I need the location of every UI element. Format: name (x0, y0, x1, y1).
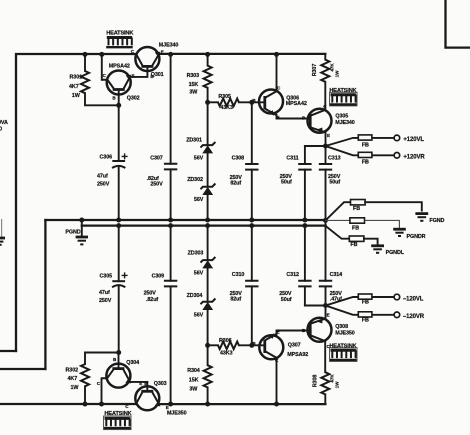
node junction dots on mid rails (79, 218, 328, 229)
wire left input stub exiting left edge (0, 350, 16, 352)
svg-text:MPSA92: MPSA92 (287, 352, 308, 358)
wire bottom rail (raw - input) (0, 403, 325, 405)
svg-text:15K: 15K (189, 82, 199, 88)
junction dot zener reference node top (205, 100, 210, 105)
svg-text:E: E (327, 133, 330, 138)
capacitor C308 (230, 102, 259, 220)
svg-text:47uf: 47uf (97, 174, 108, 180)
svg-text:E: E (277, 115, 280, 120)
svg-text:250V: 250V (97, 182, 110, 188)
svg-text:FB: FB (362, 317, 369, 323)
heatsink for Q303 (104, 411, 133, 429)
resistor R302 (66, 353, 119, 405)
svg-text:FB: FB (362, 159, 369, 165)
junction dot C308 tap (249, 100, 254, 105)
junction dot node R301/Q302 base (116, 103, 121, 108)
svg-text:ZD301: ZD301 (186, 138, 202, 144)
svg-text:E: E (166, 405, 169, 410)
ferrite bead FB output -120VR (358, 312, 394, 324)
node A junction dots on top rail (83, 52, 280, 57)
svg-text:1W: 1W (334, 70, 339, 77)
svg-text:.47uf: .47uf (330, 297, 342, 303)
svg-text:47uf: 47uf (99, 290, 110, 296)
transistor Q301 MJE340 (130, 42, 178, 79)
svg-text:E: E (327, 313, 330, 318)
svg-text:ZD302: ZD302 (187, 177, 203, 183)
svg-text:15K: 15K (189, 378, 199, 384)
terminal +120VR (394, 153, 425, 161)
capacitor C307 (147, 54, 178, 220)
wire mid ground rail 2 (82, 224, 326, 226)
ground PGNDR (393, 229, 425, 240)
svg-text:56V: 56V (194, 155, 204, 161)
capacitor C309 (144, 226, 178, 404)
transistor Q303 MJE350 (125, 381, 186, 416)
svg-text:+120VR: +120VR (403, 154, 425, 160)
zener ZD304 (187, 293, 216, 345)
svg-text:47K: 47K (329, 374, 334, 383)
svg-text:43K3: 43K3 (220, 351, 233, 357)
transistor Q306 MPSA42 (252, 54, 310, 119)
node output - fork (305, 297, 358, 315)
svg-text:4K7: 4K7 (69, 84, 79, 90)
ground PGNDL (371, 246, 405, 256)
capacitor C313 (319, 146, 341, 220)
transistor Q304 MPSA92 (97, 353, 148, 405)
svg-text:C310: C310 (232, 272, 245, 278)
svg-text:Q304: Q304 (126, 360, 139, 366)
capacitor C314 (319, 226, 342, 306)
svg-text:C: C (277, 85, 281, 90)
resistor R305 (208, 94, 265, 111)
svg-text:R307: R307 (312, 64, 318, 77)
transistor Q305 MJE340 (302, 104, 355, 146)
ferrite bead FB to PGNDR (326, 218, 400, 232)
zener ZD303 (188, 226, 216, 302)
svg-text:R305: R305 (218, 94, 231, 100)
heatsink for Q301 (106, 31, 134, 48)
svg-text:3W: 3W (189, 90, 198, 96)
svg-text:FGND: FGND (429, 218, 444, 224)
zener ZD301 (186, 102, 215, 186)
ferrite bead FB output -120VL (358, 294, 394, 305)
svg-text:FB: FB (362, 143, 369, 149)
svg-text:0VA: 0VA (0, 120, 8, 126)
svg-text:PGND: PGND (65, 230, 80, 236)
svg-text:50uf: 50uf (281, 180, 292, 186)
terminal +120VL (394, 135, 424, 143)
resistor R304 (187, 345, 211, 404)
svg-text:–120VL: –120VL (403, 297, 424, 303)
top right sheet box fragment (446, 0, 470, 48)
ferrite bead FB to FGND (326, 200, 422, 221)
zener ZD302 (187, 177, 215, 220)
junction dot node R302/Q304 base (116, 350, 121, 355)
svg-text:FB: FB (350, 242, 357, 248)
svg-text:C307: C307 (150, 155, 163, 161)
svg-text:B: B (113, 357, 117, 362)
svg-text:C309: C309 (152, 274, 165, 280)
svg-text:C305: C305 (100, 274, 113, 280)
ferrite bead FB output +120VR (358, 152, 394, 165)
svg-text:FB: FB (353, 206, 360, 212)
svg-text:82uf: 82uf (230, 297, 241, 303)
svg-text:HEATSINK: HEATSINK (106, 31, 134, 37)
svg-text:R301: R301 (70, 74, 83, 80)
terminal -120VR (394, 312, 425, 320)
svg-text:E: E (139, 381, 142, 386)
svg-text:C306: C306 (100, 155, 113, 161)
svg-text:1W: 1W (71, 385, 80, 391)
resistor R303 (187, 54, 212, 102)
svg-text:1W: 1W (72, 93, 81, 99)
svg-text:Q308: Q308 (335, 324, 348, 330)
svg-text:C: C (275, 358, 279, 363)
svg-text:250V: 250V (99, 298, 112, 304)
resistor R306 (208, 338, 265, 356)
svg-text:FB: FB (362, 299, 369, 305)
resistor R307 (312, 54, 339, 110)
svg-text:56V: 56V (194, 197, 204, 203)
svg-text:HEATSINK: HEATSINK (329, 343, 357, 349)
svg-text:3W: 3W (189, 386, 198, 392)
svg-text:PGNDR: PGNDR (407, 234, 426, 240)
svg-text:Q305: Q305 (335, 114, 348, 120)
svg-text:250V: 250V (144, 291, 157, 297)
svg-text:C314: C314 (330, 272, 343, 278)
svg-text:PGNDL: PGNDL (386, 250, 405, 256)
svg-text:C: C (97, 381, 101, 386)
wire mid ground rail 1 (45, 219, 325, 221)
terminal -120VL (394, 294, 424, 302)
svg-text:R306: R306 (219, 338, 232, 344)
svg-text:Q303: Q303 (154, 381, 167, 387)
transistor Q302 MPSA42 (102, 54, 140, 105)
svg-text:50uf: 50uf (329, 180, 340, 186)
svg-text:C: C (323, 104, 327, 109)
ferrite bead FB to PGNDL (326, 226, 378, 248)
heatsink for Q308 (329, 343, 357, 361)
svg-text:FB: FB (352, 226, 359, 232)
svg-text:250V: 250V (150, 182, 163, 188)
resistor R301 (69, 54, 119, 105)
svg-text:E: E (277, 330, 280, 335)
svg-text:56V: 56V (194, 312, 204, 318)
svg-text:–120VR: –120VR (403, 314, 425, 320)
resistor R308 (312, 372, 339, 404)
svg-text:50uf: 50uf (281, 297, 292, 303)
svg-text:MPSA42: MPSA42 (109, 63, 130, 69)
junction dot zener reference node bottom (205, 343, 210, 348)
capacitor C305 (99, 226, 128, 353)
wire PGND tap jumper (81, 220, 83, 237)
node junction dots on bottom rail (83, 402, 280, 407)
svg-text:82uf: 82uf (230, 181, 241, 187)
wire rail1-rail2 jumper at right end (325, 219, 327, 226)
capacitor C312 (279, 226, 311, 306)
svg-text:+120VL: +120VL (403, 137, 424, 143)
capacitor C306 (97, 105, 128, 220)
capacitor C310 (230, 226, 259, 346)
left edge ground fragment (0, 219, 5, 245)
svg-text:Q307: Q307 (288, 342, 301, 348)
svg-text:C: C (103, 73, 107, 78)
svg-text:MJE350: MJE350 (335, 330, 355, 336)
svg-text:Q302: Q302 (127, 95, 140, 101)
transistor Q307 MPSA92 (252, 330, 310, 404)
svg-text:MPSA42: MPSA42 (286, 101, 307, 107)
junction dot C310 tap (249, 343, 254, 348)
svg-text:R308: R308 (312, 375, 318, 388)
svg-text:E: E (161, 49, 164, 54)
svg-text:C313: C313 (328, 156, 341, 162)
svg-text:B: B (112, 95, 116, 100)
ferrite bead FB output +120VL (358, 135, 394, 149)
heatsink for Q305 (329, 88, 357, 106)
svg-text:R303: R303 (187, 73, 200, 79)
svg-text:43K3: 43K3 (220, 105, 233, 111)
ground FGND (415, 214, 444, 224)
svg-text:MJE350: MJE350 (167, 410, 187, 416)
svg-text:C311: C311 (286, 156, 298, 162)
svg-text:MJE340: MJE340 (335, 120, 355, 126)
svg-text:47K: 47K (329, 63, 334, 72)
svg-text:O: O (0, 127, 2, 133)
svg-text:ZD304: ZD304 (187, 293, 203, 299)
wire second left vertical (ground feed) (0, 220, 45, 369)
transistor Q308 MJE350 (302, 306, 355, 373)
wire top rail (raw + input) (16, 54, 325, 351)
node output + fork (305, 138, 358, 155)
svg-text:MJE340: MJE340 (159, 42, 179, 48)
left edge text fragment (0, 120, 8, 133)
svg-text:C308: C308 (232, 156, 245, 162)
capacitor C311 (280, 146, 312, 220)
svg-text:R304: R304 (187, 368, 200, 374)
svg-text:56V: 56V (194, 271, 204, 277)
svg-text:.82uf: .82uf (146, 297, 158, 303)
svg-text:ZD303: ZD303 (188, 251, 204, 257)
svg-text:4K7: 4K7 (68, 376, 78, 382)
svg-text:C312: C312 (286, 272, 299, 278)
svg-text:1W: 1W (334, 381, 339, 388)
ground PGND (65, 230, 88, 245)
svg-text:R302: R302 (66, 367, 79, 373)
